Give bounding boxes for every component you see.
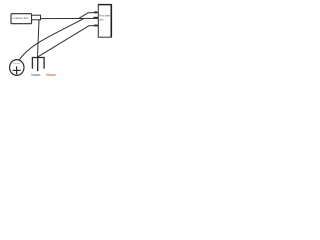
svg-text:contacteur frein: contacteur frein	[12, 16, 28, 20]
switch box "contacteur frein"	[11, 14, 32, 24]
wire D1 (battery + to connector pin 1)	[19, 18, 85, 61]
label "Masse"	[31, 73, 40, 77]
connector tab on switch box	[32, 15, 41, 20]
svg-text:Klaxon: Klaxon	[46, 73, 56, 77]
connector C1 "Feux arriere"	[98, 4, 112, 37]
svg-text:Courant: Courant	[13, 62, 21, 65]
pin 1 of connector C1	[88, 11, 98, 13]
svg-text:Feux arrière: Feux arrière	[99, 13, 112, 17]
battery B1 (courant +)	[10, 60, 24, 76]
wire S1 (main wire up to connector pin 1)	[79, 13, 89, 19]
pin 3 of connector C1	[89, 25, 98, 27]
svg-text:à inj: à inj	[99, 18, 104, 22]
wire D2 (ground bar to connector pin 3)	[37, 26, 89, 58]
wire W1 (tab to connector pin 2)	[41, 17, 99, 20]
wire W2 (tab down to ground bar)	[38, 20, 40, 57]
label "Klaxon" (orange)	[46, 73, 56, 77]
ground fork (masse)	[32, 58, 45, 72]
svg-text:Masse: Masse	[31, 73, 40, 77]
